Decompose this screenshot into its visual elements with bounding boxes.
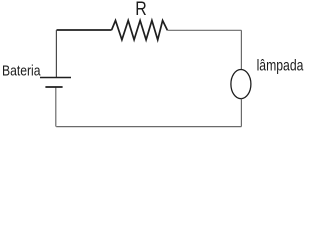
battery B1 negative plate (short) [45,86,62,88]
wire top-right (resistor to lamp) [167,29,241,31]
svg-text:R: R [135,0,147,20]
wire bottom [56,126,241,128]
wire left vertical lower (battery to bottom) [55,87,57,126]
wire top-left (battery to resistor) [57,29,112,31]
svg-text:Bateria: Bateria [2,62,41,79]
svg-text:lâmpada: lâmpada [257,57,304,74]
resistor R1 zigzag [112,21,168,40]
lamp L1 ellipse [231,70,251,99]
battery B1 positive plate (long) [40,77,71,79]
wire left vertical upper (top to battery) [55,30,57,77]
wire right vertical upper [240,30,242,69]
wire right vertical lower [240,99,242,127]
